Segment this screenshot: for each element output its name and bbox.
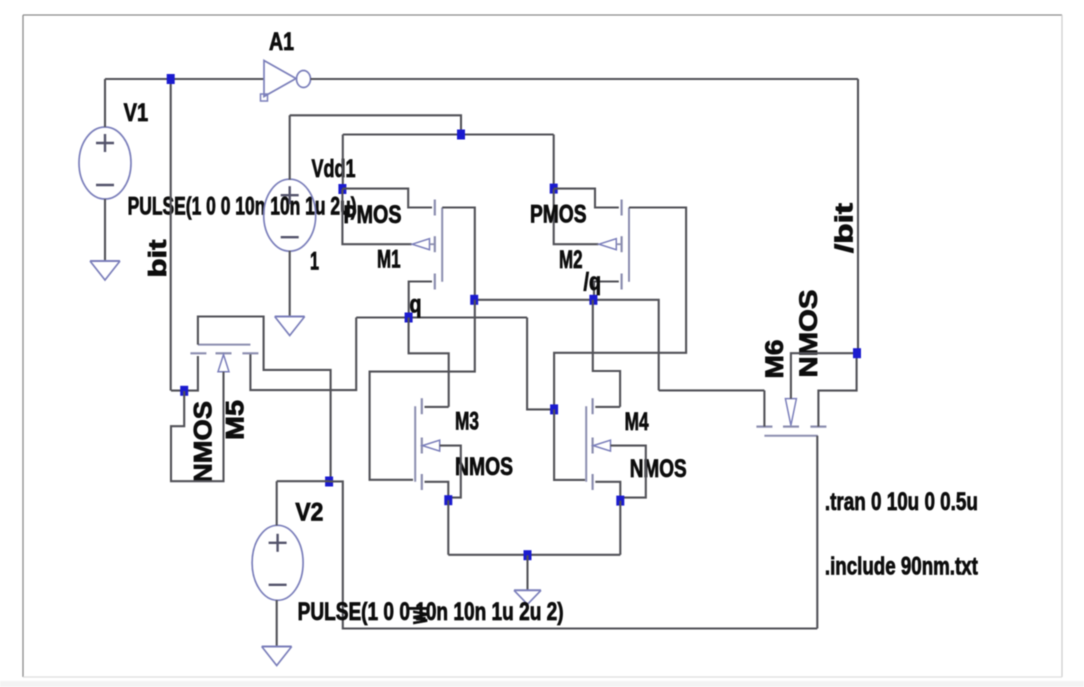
wire M3 bulk lead — [440, 446, 461, 498]
label NMOS M5 — [190, 401, 218, 483]
svg-text:/bit: /bit — [831, 202, 859, 253]
border frame right — [1061, 15, 1063, 677]
transistor M4 body — [586, 398, 610, 490]
svg-text:M6: M6 — [761, 340, 789, 379]
svg-text:M4: M4 — [625, 408, 649, 436]
ground below Vdd1 — [275, 317, 305, 336]
wire /q to M6 — [659, 389, 765, 391]
junction M4 source node — [616, 496, 624, 506]
directive .tran — [825, 488, 978, 516]
wire M4 gate lead — [554, 409, 585, 480]
wire top rail right (A1 out to /bit) — [311, 78, 859, 80]
wire M2 bulk lead — [554, 189, 599, 244]
label PMOS M2 — [530, 201, 587, 229]
svg-text:Vdd1: Vdd1 — [312, 155, 356, 183]
voltage source V2 — [252, 525, 303, 600]
wire wordline V2 to junction — [277, 480, 329, 482]
wire M4 bulk lead — [611, 446, 646, 498]
svg-text:M1: M1 — [377, 246, 401, 274]
transistor M1 body — [412, 200, 442, 290]
junction M6 / /bit — [853, 348, 861, 358]
svg-text:V2: V2 — [295, 499, 323, 527]
svg-text:M3: M3 — [455, 408, 479, 436]
junction gnd rail — [524, 550, 532, 560]
node /q label — [584, 268, 602, 296]
label Vdd1 — [312, 155, 356, 183]
wire M2 drain stub — [594, 282, 619, 300]
junction bit/top-rail — [167, 74, 175, 84]
wire bit vertical — [170, 79, 172, 391]
junction Vdd rail — [457, 130, 465, 140]
transistor M3 body — [415, 398, 440, 490]
label A1 — [269, 28, 294, 56]
label M1 — [377, 246, 401, 274]
border frame left — [22, 15, 24, 677]
ground below V1 — [90, 261, 120, 280]
value label 1 (Vdd1) — [310, 248, 319, 276]
wire V1 top stem — [104, 79, 106, 127]
op-amp inverter A1 — [261, 61, 311, 102]
wire M6 gate lead — [816, 436, 818, 629]
label NMOS M3 — [455, 453, 513, 481]
svg-text:NMOS: NMOS — [455, 453, 513, 481]
svg-text:V1: V1 — [124, 99, 149, 127]
wire M4 drain stub — [595, 406, 620, 408]
wire /q to M3 gate — [370, 300, 475, 480]
svg-text:.tran 0 10u 0 0.5u: .tran 0 10u 0 0.5u — [825, 488, 978, 516]
wire M5 gate lead to wordline — [198, 317, 331, 482]
svg-text:NMOS: NMOS — [630, 455, 687, 483]
junction /q node — [589, 295, 597, 305]
node q label — [410, 291, 422, 319]
label NMOS M6 — [795, 290, 823, 378]
wire /q to M4 drain — [593, 300, 620, 407]
svg-text:bit: bit — [144, 239, 172, 278]
wire gnd stub — [526, 555, 528, 590]
ground below V2 — [262, 647, 292, 666]
svg-text:q: q — [410, 291, 422, 319]
value label PULSE V2 — [298, 598, 564, 626]
svg-text:PMOS: PMOS — [344, 201, 402, 229]
label V2 — [295, 499, 323, 527]
label V1 — [124, 99, 149, 127]
svg-text:A1: A1 — [269, 28, 294, 56]
label M4 — [625, 408, 649, 436]
junction /q gate tap — [470, 295, 478, 305]
wire M3 source stub — [425, 482, 449, 500]
bottom strip — [0, 681, 1084, 687]
ground below M3/M4 rail — [514, 590, 541, 604]
wire M1 bulk lead — [342, 189, 411, 244]
svg-text:M2: M2 — [559, 246, 583, 274]
junction M5 source / bit — [180, 386, 188, 396]
node bit label — [144, 239, 172, 278]
wire Vdd drop to M2 source — [553, 135, 555, 189]
svg-text:NMOS: NMOS — [190, 401, 218, 483]
wire Vdd1 bottom stem — [289, 251, 291, 317]
wire Vdd distribution rail — [343, 133, 554, 135]
node /q rail — [475, 300, 659, 391]
wire M6 left stub — [763, 390, 765, 426]
wire M1 gate lead to /q — [442, 208, 475, 300]
wire gnd rail — [448, 554, 620, 556]
wire M2 gate lead to q — [554, 208, 686, 410]
wire q to M3 drain — [409, 318, 449, 407]
svg-text:PMOS: PMOS — [530, 201, 587, 229]
wire M4 source stub — [595, 482, 620, 501]
wire wordline bottom rail — [329, 481, 817, 628]
svg-text:.include 90nm.txt: .include 90nm.txt — [825, 553, 979, 581]
wire M3 drain stub — [425, 406, 449, 408]
voltage source Vdd1 — [264, 179, 316, 251]
svg-text:1: 1 — [310, 248, 319, 276]
border frame top — [23, 14, 1062, 16]
transistor M2 body — [599, 200, 629, 290]
node wl label — [405, 606, 433, 625]
wire M1 drain stub — [409, 282, 432, 318]
directive .include — [825, 553, 979, 581]
label M3 — [455, 408, 479, 436]
transistor M5 body — [190, 345, 258, 372]
label PMOS M1 — [344, 201, 402, 229]
wire V2 bottom stem — [276, 600, 278, 646]
border frame bottom — [23, 676, 1062, 678]
junction M2 source node — [550, 184, 558, 194]
wire M6 right stub — [818, 353, 856, 426]
wire top rail left (V1 to A1 input) — [105, 78, 264, 80]
junction q/M4-gate/M2-gate — [550, 404, 558, 414]
node q rail — [356, 316, 527, 318]
wire M3 source to gnd rail — [447, 500, 449, 555]
wire Vdd drop to M1 source — [342, 135, 344, 190]
voltage source V1 — [79, 127, 131, 199]
wire Vdd top rail — [290, 115, 461, 134]
wire /bit vertical — [857, 79, 859, 353]
svg-text:NMOS: NMOS — [795, 290, 823, 378]
svg-text:M5: M5 — [222, 400, 250, 440]
wire q rail to M5 drain — [250, 318, 356, 391]
wire M6 bulk lead — [791, 353, 857, 398]
value label PULSE V1 — [128, 193, 357, 221]
wire M1 source approach — [342, 189, 432, 208]
label NMOS M4 — [630, 455, 687, 483]
junction M3 source node — [444, 495, 452, 505]
junction wordline — [325, 477, 333, 487]
transistor M6 body — [756, 399, 826, 436]
wire M4 source to gnd rail — [619, 501, 621, 555]
wire q rail to M4 gate region — [527, 318, 554, 410]
svg-text:/q: /q — [584, 268, 602, 296]
junction q node — [405, 313, 413, 323]
wire V1 bottom stem — [104, 199, 106, 261]
label M2 — [559, 246, 583, 274]
wire M2 source approach — [554, 189, 619, 208]
wire Vdd1 top stem — [289, 115, 291, 180]
wire M5 source stub — [171, 356, 198, 391]
wire V2 top stem — [276, 481, 278, 525]
label M5 — [222, 400, 250, 440]
wire M5 bulk lead — [171, 372, 224, 481]
svg-text:PULSE(1 0 0 10n 10n 1u 2u): PULSE(1 0 0 10n 10n 1u 2u) — [128, 193, 357, 221]
node /bit label — [831, 202, 859, 253]
svg-text:PULSE(1 0 0 10n 10n 1u 2u 2): PULSE(1 0 0 10n 10n 1u 2u 2) — [298, 598, 564, 626]
junction M1 source node — [338, 184, 346, 194]
label M6 — [761, 340, 789, 379]
